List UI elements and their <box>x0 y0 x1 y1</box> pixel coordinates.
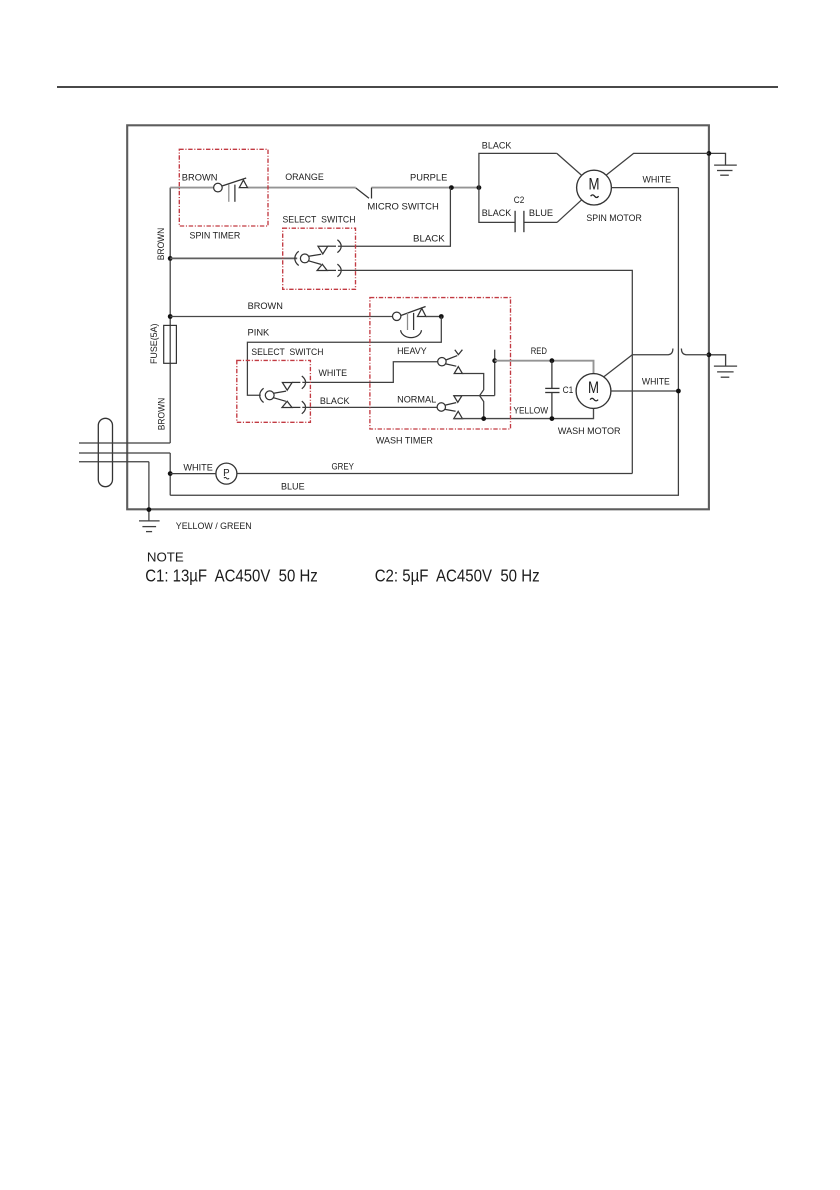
wire ORANGE spin timer to micro switch (gray run) <box>248 187 356 189</box>
wire BLUE neutral return <box>170 188 678 496</box>
wire PURPLE micro switch to motor branch (gray run) <box>372 187 479 189</box>
svg-text:RED: RED <box>531 346 547 357</box>
wire spin motor top right to frame earth <box>606 153 709 175</box>
fuse F1 FUSE(5A) <box>164 325 177 363</box>
select switch S2 lower throw <box>273 398 300 408</box>
wire cam output to PINK corner <box>426 316 441 318</box>
select switch S1 upper throw <box>309 246 336 256</box>
wire wash motor aux diagonal <box>604 355 633 377</box>
svg-text:BLACK: BLACK <box>482 208 512 219</box>
WASH TIMER red dashed box <box>370 298 511 429</box>
wire spin select feed (gray run) <box>170 257 297 259</box>
select switch S1 upper connector arc <box>337 240 341 253</box>
wire BLACK down to capacitor C2 <box>479 188 515 223</box>
pressure switch P <box>216 463 237 484</box>
ground symbol bottom left (YELLOW/GREEN earth) <box>139 521 160 532</box>
wire BROWN feed to wash timer cam <box>170 316 392 318</box>
select switch S2 lower connector arc <box>302 401 306 414</box>
select switch S2 upper throw <box>274 382 301 393</box>
SELECT SWITCH (wash) red dashed box <box>237 360 311 422</box>
svg-text:SPIN TIMER: SPIN TIMER <box>190 230 241 241</box>
wire PINK down and left to wash select switch <box>247 317 441 396</box>
svg-text:HEAVY: HEAVY <box>397 346 427 357</box>
svg-text:FUSE(5A): FUSE(5A) <box>149 324 160 365</box>
wire neutral riser lower <box>169 453 171 495</box>
svg-text:WHITE: WHITE <box>183 463 212 474</box>
capacitor C1 <box>545 361 559 419</box>
svg-text:WASH MOTOR: WASH MOTOR <box>558 426 621 437</box>
svg-text:SPIN MOTOR: SPIN MOTOR <box>586 213 642 224</box>
wire HEAVY contact rail with wiper kink <box>462 374 483 419</box>
svg-text:BROWN: BROWN <box>248 301 283 312</box>
select switch S1 common circle <box>300 254 309 263</box>
svg-text:MICRO SWITCH: MICRO SWITCH <box>367 202 439 213</box>
SELECT SWITCH (spin) red dashed box <box>283 228 356 289</box>
svg-text:WASH TIMER: WASH TIMER <box>376 436 433 447</box>
pressure switch tilde <box>224 477 229 479</box>
red node fixed contact stub <box>494 350 496 361</box>
wire cord earth <box>79 461 149 463</box>
wire aux to frame earth with hop over neutral <box>632 349 709 355</box>
node: RED output of wash timer <box>492 358 497 363</box>
node: rail to yellow <box>481 416 486 421</box>
capacitor C2 <box>515 211 524 232</box>
svg-text:M: M <box>589 175 600 193</box>
node: frame/earth junction top right <box>707 151 712 156</box>
spin motor tilde <box>591 195 599 198</box>
svg-text:BROWN: BROWN <box>156 398 167 431</box>
wire GREY pressure switch to rail <box>237 473 632 475</box>
svg-text:YELLOW / GREEN: YELLOW / GREEN <box>176 521 252 532</box>
svg-text:NORMAL: NORMAL <box>397 395 436 406</box>
mains plug <box>98 418 112 486</box>
svg-text:YELLOW: YELLOW <box>513 406 548 417</box>
svg-text:BLUE: BLUE <box>281 482 305 493</box>
node: RED to capacitor C1 <box>550 358 555 363</box>
wire red node drop <box>494 361 496 396</box>
wire diagonal into spin motor top left <box>557 153 582 175</box>
wire BROWN to spin timer (gray run) <box>170 187 213 189</box>
svg-text:PINK: PINK <box>248 327 270 338</box>
svg-text:BLUE: BLUE <box>529 208 553 219</box>
wire RED to wash motor (gray run) <box>495 361 594 374</box>
node: C1 to yellow <box>550 416 555 421</box>
spin timer cam switch (in SPIN TIMER) <box>214 178 248 202</box>
wire select lower to wash motor aux rail <box>338 270 632 473</box>
select switch S1 (spin) common connector arc <box>295 251 299 265</box>
node: earth to frame bottom <box>147 507 152 512</box>
wire WHITE neutral to pressure switch <box>170 473 216 475</box>
ground symbol top right (chassis earth) <box>709 153 737 175</box>
svg-text:M: M <box>588 379 599 397</box>
svg-text:WHITE: WHITE <box>319 368 348 379</box>
svg-text:BLACK: BLACK <box>482 141 512 152</box>
wire cord neutral <box>79 452 170 454</box>
select switch S2 common circle <box>265 391 274 400</box>
wash timer cam switch (in WASH TIMER) <box>393 307 426 338</box>
svg-text:ORANGE: ORANGE <box>285 172 324 183</box>
wire WHITE wash motor to neutral <box>611 390 679 392</box>
page top rule <box>57 86 778 88</box>
wash timer NORMAL contact <box>437 396 462 419</box>
select switch S1 lower connector arc <box>337 264 341 277</box>
wire WHITE wash select to HEAVY contact <box>302 362 437 383</box>
wire live riser (left vertical, with fuse) <box>169 188 171 443</box>
svg-text:SELECT SWITCH: SELECT SWITCH <box>283 214 356 225</box>
svg-text:P: P <box>223 468 230 479</box>
node: neutral to pressure switch <box>168 471 173 476</box>
wire BLACK branch up to spin motor <box>479 153 557 187</box>
node: frame/earth junction mid right <box>707 352 712 357</box>
wire BLACK select upper to purple node <box>338 188 451 247</box>
node: purple to black/capacitor branch <box>477 185 482 190</box>
svg-text:BROWN: BROWN <box>156 228 167 261</box>
wire NORMAL common bar to red node <box>454 395 495 397</box>
node: wash white to neutral riser <box>676 389 681 394</box>
svg-text:NOTE: NOTE <box>147 550 184 565</box>
select switch S1 lower throw <box>309 261 337 271</box>
wire WHITE spin motor to right vertical <box>611 187 678 189</box>
svg-text:WHITE: WHITE <box>643 175 672 186</box>
chassis frame (cabinet earth boundary) <box>127 125 709 509</box>
node: purple to spin select drop <box>449 185 454 190</box>
svg-text:BROWN: BROWN <box>182 172 218 183</box>
micro switch lever <box>356 188 369 198</box>
select switch S2 upper connector arc <box>302 376 306 389</box>
wire YELLOW wash timer to motor bottom <box>454 409 594 419</box>
svg-text:BLACK: BLACK <box>413 234 445 245</box>
wire BLACK wash select to NORMAL contact <box>302 406 437 408</box>
svg-text:GREY: GREY <box>332 461 355 472</box>
node: cam output / pink <box>439 314 444 319</box>
svg-text:BLACK: BLACK <box>320 396 350 407</box>
node: live to spin select wire <box>168 256 173 261</box>
wash motor M2 <box>576 374 611 409</box>
svg-text:C2: C2 <box>514 195 525 206</box>
wash timer HEAVY contact <box>438 350 463 374</box>
svg-text:PURPLE: PURPLE <box>410 172 447 183</box>
svg-text:C1: 13µF AC450V 50 Hz: C1: 13µF AC450V 50 Hz <box>145 565 318 585</box>
svg-text:SELECT SWITCH: SELECT SWITCH <box>251 347 323 358</box>
select switch S2 (wash) common connector arc <box>260 388 264 402</box>
SPIN TIMER red dashed box <box>179 149 268 226</box>
ground symbol mid right (chassis earth) <box>709 355 737 377</box>
micro switch fixed contact tick <box>371 188 373 199</box>
spin motor M1 <box>577 170 612 205</box>
svg-text:WHITE: WHITE <box>642 376 670 387</box>
node: live to wash timer wire <box>168 314 173 319</box>
svg-text:C1: C1 <box>563 385 574 396</box>
wire cord live <box>79 442 170 444</box>
wire BLUE capacitor to spin motor bottom <box>524 200 581 222</box>
wash motor tilde <box>590 398 598 401</box>
wire earth drop to ground <box>148 462 150 521</box>
svg-text:C2: 5µF AC450V 50 Hz: C2: 5µF AC450V 50 Hz <box>375 565 540 585</box>
